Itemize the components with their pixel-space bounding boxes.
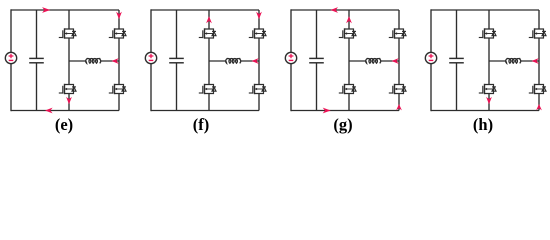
capacitor C (e) [29, 58, 44, 62]
wire: left leg drain segment (e) [68, 10, 70, 29]
current arrow: right leg downward (top) (e) [116, 12, 122, 19]
current arrow: left leg upward (top) (g) [346, 16, 352, 23]
MOSFET S1 left-leg top (e) [59, 28, 76, 38]
wire: left leg drain segment (h) [488, 10, 490, 29]
wire: midline left of inductor (f) [209, 60, 226, 62]
wire: right leg source segment (g) [398, 94, 400, 111]
wire: left leg source segment (f) [208, 94, 210, 111]
wire: capacitor branch upper (e) [36, 10, 38, 58]
wire: midline right of inductor (h) [521, 60, 539, 62]
wire: left leg drain segment (f) [208, 10, 210, 29]
wire: left leg mid segment (g) [348, 38, 350, 85]
svg-text:(f): (f) [193, 115, 209, 134]
wire: left leg mid segment (e) [68, 38, 70, 85]
wire: right leg drain segment (e) [118, 10, 120, 29]
MOSFET S2 left-leg bottom (e) [59, 84, 76, 94]
wire: right leg drain segment (h) [538, 10, 540, 29]
wire: left leg mid segment (f) [208, 38, 210, 85]
svg-text:(g): (g) [333, 115, 352, 134]
MOSFET S3 right-leg top (e) [109, 28, 126, 38]
capacitor C (h) [449, 58, 464, 62]
current arrow: inductor leftward (h) [532, 58, 539, 64]
current arrow: inductor leftward (g) [392, 58, 399, 64]
wire: right leg source segment (e) [118, 94, 120, 111]
wire: left leg drain segment (g) [348, 10, 350, 29]
MOSFET S2 left-leg bottom (h) [479, 84, 496, 94]
wire: right leg source segment (h) [538, 94, 540, 111]
current arrow: left leg downward (bottom) (e) [66, 97, 72, 104]
voltage source Vin (g) [285, 52, 296, 63]
wire: capacitor branch lower (e) [36, 63, 38, 111]
MOSFET S2 left-leg bottom (g) [339, 84, 356, 94]
wire: midline left of inductor (g) [349, 60, 366, 62]
wire: capacitor branch lower (g) [316, 63, 318, 111]
MOSFET S4 right-leg bottom (e) [109, 84, 126, 94]
wire: left rail lower segment (f) [150, 64, 152, 111]
wire: bottom rail (f) [151, 110, 259, 112]
svg-text:(h): (h) [473, 115, 493, 134]
wire: left rail upper segment (e) [10, 9, 12, 52]
wire: right leg mid segment (h) [538, 38, 540, 85]
wire: left leg source segment (e) [68, 94, 70, 111]
wire: left rail upper segment (g) [290, 9, 292, 52]
wire: top rail (g) [291, 9, 399, 11]
wire: capacitor branch upper (f) [176, 10, 178, 58]
current arrow: right leg downward (top) (f) [256, 12, 262, 19]
wire: bottom rail (e) [11, 110, 119, 112]
wire: right leg source segment (f) [258, 94, 260, 111]
MOSFET S3 right-leg top (g) [389, 28, 406, 38]
inductor L (f) [226, 58, 241, 63]
wire: bottom rail (g) [291, 110, 399, 112]
wire: left rail lower segment (g) [290, 64, 292, 111]
wire: right leg mid segment (e) [118, 38, 120, 85]
wire: midline right of inductor (e) [101, 60, 119, 62]
MOSFET S3 right-leg top (h) [529, 28, 546, 38]
wire: capacitor branch lower (f) [176, 63, 178, 111]
wire: left rail upper segment (h) [430, 9, 432, 52]
wire: midline left of inductor (h) [489, 60, 506, 62]
current arrow: bottom rail leftward (e) [45, 108, 53, 114]
wire: right leg drain segment (g) [398, 10, 400, 29]
MOSFET S1 left-leg top (h) [479, 28, 496, 38]
inductor L (e) [86, 58, 101, 63]
wire: left leg source segment (h) [488, 94, 490, 111]
MOSFET S3 right-leg top (f) [249, 28, 266, 38]
wire: capacitor branch lower (h) [456, 63, 458, 111]
wire: left rail lower segment (h) [430, 64, 432, 111]
MOSFET S4 right-leg bottom (g) [389, 84, 406, 94]
inductor L (g) [366, 58, 381, 63]
voltage source Vin (f) [145, 52, 156, 63]
wire: right leg mid segment (f) [258, 38, 260, 85]
MOSFET S1 left-leg top (g) [339, 28, 356, 38]
MOSFET S2 left-leg bottom (f) [199, 84, 216, 94]
current arrow: left leg upward (top) (f) [206, 16, 212, 23]
capacitor C (f) [169, 58, 184, 62]
current arrow: top rail rightward (e) [42, 7, 50, 13]
wire: left rail upper segment (f) [150, 9, 152, 52]
wire: left rail lower segment (e) [10, 64, 12, 111]
wire: midline left of inductor (e) [69, 60, 86, 62]
wire: bottom rail (h) [431, 110, 539, 112]
wire: midline right of inductor (f) [241, 60, 259, 62]
wire: right leg mid segment (g) [398, 38, 400, 85]
wire: midline right of inductor (g) [381, 60, 399, 62]
current arrow: right leg upward (bottom) (g) [396, 104, 402, 110]
wire: capacitor branch upper (g) [316, 10, 318, 58]
current arrow: left leg downward (bottom) (h) [486, 97, 492, 104]
current arrow: top rail leftward (g) [330, 7, 338, 13]
MOSFET S4 right-leg bottom (h) [529, 84, 546, 94]
voltage source Vin (e) [5, 52, 16, 63]
wire: top rail (f) [151, 9, 259, 11]
current arrow: inductor leftward (e) [112, 58, 119, 64]
capacitor C (g) [309, 58, 324, 62]
current arrow: inductor leftward (f) [252, 58, 259, 64]
wire: left leg source segment (g) [348, 94, 350, 111]
MOSFET S4 right-leg bottom (f) [249, 84, 266, 94]
wire: capacitor branch upper (h) [456, 10, 458, 58]
voltage source Vin (h) [425, 52, 436, 63]
wire: left leg mid segment (h) [488, 38, 490, 85]
wire: top rail (h) [431, 9, 539, 11]
MOSFET S1 left-leg top (f) [199, 28, 216, 38]
current arrow: bottom rail rightward (g) [323, 108, 331, 114]
inductor L (h) [506, 58, 521, 63]
wire: top rail (e) [11, 9, 119, 11]
current arrow: right leg upward (bottom) (h) [536, 104, 542, 110]
svg-text:(e): (e) [55, 115, 73, 134]
wire: right leg drain segment (f) [258, 10, 260, 29]
